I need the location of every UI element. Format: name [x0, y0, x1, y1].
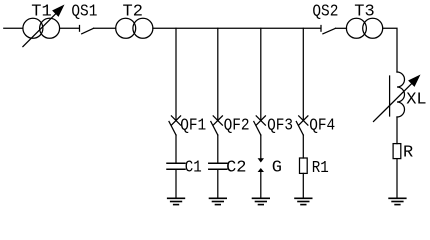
svg-text:QS1: QS1 [71, 2, 97, 21]
wire: QF2 to C2 [217, 135, 219, 163]
svg-text:QF3: QF3 [267, 116, 293, 135]
wire: T1 to QS1 [60, 27, 79, 29]
wire: C2 to ground [217, 170, 219, 198]
svg-text:C2: C2 [226, 159, 246, 178]
wire: C1 to ground [175, 170, 177, 198]
transformer T2 [116, 18, 136, 38]
breaker QF3 contact cross [256, 116, 265, 125]
ground (branch 2) [210, 198, 227, 204]
ground (branch 4) [295, 198, 312, 204]
wire: QF4 to R1 [302, 135, 304, 158]
capacitor C1 [167, 163, 185, 169]
wire: left feeder into T1 [4, 27, 23, 29]
wire: QS2 to T3 [336, 27, 347, 29]
svg-text:XL: XL [406, 91, 426, 110]
disconnector QS2 fixed contact tick [320, 26, 322, 32]
wire: G to ground [260, 172, 262, 198]
svg-text:T3: T3 [354, 2, 374, 21]
XL arrowhead [408, 75, 420, 87]
wire: branch 3 drop [260, 28, 262, 120]
wire: branch 1 drop [175, 28, 177, 120]
svg-text:T2: T2 [123, 2, 143, 21]
wire: T3 to right corner, down to XL [383, 28, 397, 72]
transformer T3 [346, 18, 366, 38]
wire: QF3 to spark gap G [260, 135, 262, 159]
transformer T1 (two-winding, variable) [23, 18, 43, 38]
breaker QF2 blade [211, 122, 218, 136]
wire: R to ground [396, 159, 398, 198]
resistor R1 [300, 158, 308, 173]
svg-text:QF1: QF1 [180, 116, 206, 135]
wire: R1 to ground [302, 173, 304, 197]
wire: QF1 to C1 [175, 135, 177, 163]
wire: branch 4 drop [302, 28, 304, 120]
T1 adjustment arrow shaft [23, 14, 56, 47]
wire: XL to R [396, 117, 398, 144]
svg-text:C1: C1 [185, 159, 202, 178]
svg-text:QS2: QS2 [312, 2, 338, 21]
disconnector QS1 blade [82, 28, 94, 34]
ground (branch 1) [168, 198, 185, 204]
XL adjustment arrow shaft [374, 84, 412, 122]
wire: QS1 to T2 [94, 27, 116, 29]
spark gap G upper electrode [258, 158, 264, 162]
svg-text:R: R [403, 144, 413, 163]
svg-text:T1: T1 [31, 2, 51, 21]
wire: branch 2 drop [217, 28, 219, 120]
capacitor C2 [209, 163, 227, 169]
XL core bar [389, 76, 391, 116]
ground (branch 3) [253, 198, 270, 204]
breaker QF1 blade [169, 122, 176, 136]
T1 arrowhead [52, 5, 64, 17]
breaker QF2 contact cross [213, 116, 222, 125]
breaker QF3 blade [254, 122, 261, 136]
svg-text:QF2: QF2 [224, 116, 250, 135]
ground (right branch) [389, 198, 406, 204]
breaker QF1 contact cross [171, 116, 180, 125]
spark gap G lower electrode [258, 168, 264, 172]
breaker QF4 contact cross [299, 116, 308, 125]
disconnector QS1 fixed contact tick [79, 26, 81, 32]
svg-text:QF4: QF4 [309, 116, 335, 135]
disconnector QS2 blade [323, 28, 336, 34]
breaker QF4 blade [296, 122, 303, 136]
svg-text:R1: R1 [312, 159, 329, 178]
svg-text:G: G [272, 158, 282, 177]
wire: bus from T2 to QS2 [153, 27, 320, 29]
reactor XL winding [397, 72, 405, 117]
resistor R [393, 144, 401, 159]
